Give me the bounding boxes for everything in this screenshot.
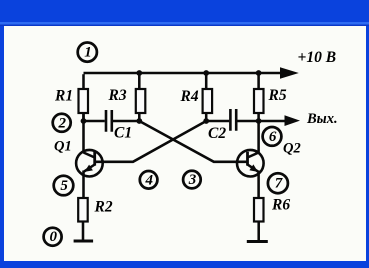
- svg-text:5: 5: [60, 178, 68, 194]
- svg-text:C1: C1: [114, 124, 132, 141]
- svg-text:R3: R3: [108, 87, 127, 104]
- svg-text:3: 3: [188, 172, 197, 188]
- svg-text:R2: R2: [94, 199, 113, 216]
- svg-text:R1: R1: [54, 88, 73, 105]
- svg-text:7: 7: [275, 176, 283, 192]
- svg-text:Q1: Q1: [54, 139, 72, 155]
- svg-text:R4: R4: [180, 88, 199, 105]
- svg-text:C2: C2: [208, 125, 226, 142]
- svg-text:2: 2: [58, 115, 67, 131]
- svg-text:6: 6: [269, 129, 277, 145]
- svg-text:4: 4: [144, 172, 153, 188]
- svg-text:+10 В: +10 В: [298, 49, 337, 66]
- svg-text:Q2: Q2: [283, 141, 301, 157]
- svg-text:R6: R6: [271, 197, 290, 214]
- svg-text:R5: R5: [268, 87, 287, 104]
- svg-text:1: 1: [84, 45, 92, 61]
- svg-text:0: 0: [49, 229, 57, 245]
- svg-text:Вых.: Вых.: [306, 111, 338, 127]
